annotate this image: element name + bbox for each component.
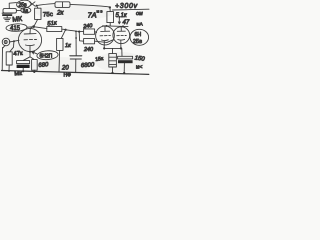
svg-text:МК: МК	[12, 16, 23, 24]
wire anode up to node	[30, 27, 33, 29]
svg-text:240: 240	[82, 23, 93, 30]
wire node to R3	[37, 4, 55, 6]
svg-text:Мк: Мк	[14, 71, 22, 78]
tube V2b envelope	[113, 27, 130, 44]
svg-text:47: 47	[123, 20, 130, 26]
cathode bus wire	[104, 47, 121, 49]
tube V1 envelope	[18, 28, 41, 51]
node B+	[109, 6, 111, 8]
capacitor C1 electrolytic	[2, 12, 12, 14]
tube V1 cathode	[26, 45, 35, 52]
wire left edge down	[1, 48, 3, 71]
node cathode V1	[29, 51, 31, 53]
svg-text:1к: 1к	[65, 43, 71, 49]
svg-text:240: 240	[83, 47, 93, 53]
tube V1 grid dashes	[24, 39, 37, 41]
node anode V1	[32, 25, 35, 28]
wire cathode node V1	[24, 52, 34, 61]
svg-text:5,1к: 5,1к	[116, 13, 128, 19]
resistor R5 1k	[57, 38, 63, 50]
oval label 6N2P	[37, 50, 59, 60]
tube V2a anode	[101, 26, 110, 31]
scribble X	[30, 2, 36, 7]
svg-text:415: 415	[10, 26, 21, 32]
wire node to grid junction	[66, 30, 79, 32]
oval label C 25v	[16, 0, 31, 9]
resistor R7 5.1k	[107, 12, 114, 23]
svg-text:6Н2П: 6Н2П	[40, 53, 53, 59]
resistor 680	[32, 60, 38, 71]
tube V2b grid	[117, 35, 127, 37]
svg-text:51к: 51к	[47, 20, 58, 27]
node grid junction	[78, 31, 80, 33]
resistor R6a 240 top	[79, 31, 83, 33]
svg-text:м в: м в	[97, 9, 103, 14]
svg-text:м<: м<	[136, 65, 142, 71]
wire jack to grid	[9, 40, 19, 42]
input jack J1	[2, 38, 10, 46]
resistor Rk striped	[109, 54, 117, 67]
svg-text:3д: 3д	[23, 8, 29, 13]
oval label 6N2B	[130, 29, 149, 45]
capacitor Ck 150mk	[121, 48, 123, 56]
resistor R6b 240 bottom	[84, 39, 95, 44]
resistor R-grid 47k	[6, 52, 12, 65]
wire junction down	[79, 32, 83, 42]
wire node down to 1k	[61, 30, 65, 39]
node input junction	[13, 40, 15, 42]
svg-text:75с: 75с	[43, 11, 53, 19]
wire +300 rail underline	[113, 8, 150, 11]
wire oval to node	[27, 26, 32, 29]
svg-text:680: 680	[38, 62, 49, 69]
wire cathode to Rk	[112, 48, 114, 53]
svg-text:мА: мА	[137, 22, 144, 27]
ground symbol	[4, 18, 11, 21]
resistor R4 51k	[47, 27, 62, 32]
arrow oval to tube	[32, 52, 37, 54]
svg-text:2Бв: 2Бв	[133, 39, 142, 45]
tube V2b anode	[117, 27, 125, 32]
resistor R1 horizontal	[3, 9, 16, 13]
svg-text:6800: 6800	[81, 62, 95, 69]
current arrow 47mA	[118, 18, 120, 24]
wire to grid resistor	[10, 41, 14, 52]
oval label 415	[6, 23, 27, 31]
wire R3 to +300 node	[70, 4, 109, 6]
resistor R2 75k	[35, 8, 41, 19]
svg-text:15к: 15к	[95, 56, 105, 63]
svg-text:ом: ом	[136, 11, 143, 17]
svg-text:6Н: 6Н	[135, 32, 142, 38]
svg-text:7А: 7А	[88, 11, 97, 20]
tube V2a grid	[100, 35, 110, 37]
capacitor C 20mf	[70, 56, 82, 59]
svg-text:47к: 47к	[13, 51, 23, 58]
node 51k out	[65, 29, 67, 31]
wire from small oval up	[9, 3, 16, 9]
tube V2b cathode	[118, 39, 125, 48]
ground bus wire	[2, 71, 149, 75]
oval label 30	[21, 7, 31, 13]
tube V1 anode	[24, 29, 36, 35]
tube V2a cathode	[102, 40, 109, 49]
node top-left B+	[36, 5, 38, 7]
capacitor C 560mk electrolytic	[17, 61, 30, 64]
svg-text:2к: 2к	[56, 10, 65, 17]
svg-text:НФ: НФ	[64, 73, 72, 79]
resistor R3 2k	[55, 2, 70, 8]
wire junction to C 20mf	[75, 31, 77, 55]
tube V2a envelope	[96, 26, 115, 45]
anode rail wire	[103, 25, 129, 28]
svg-text:20: 20	[61, 66, 69, 72]
